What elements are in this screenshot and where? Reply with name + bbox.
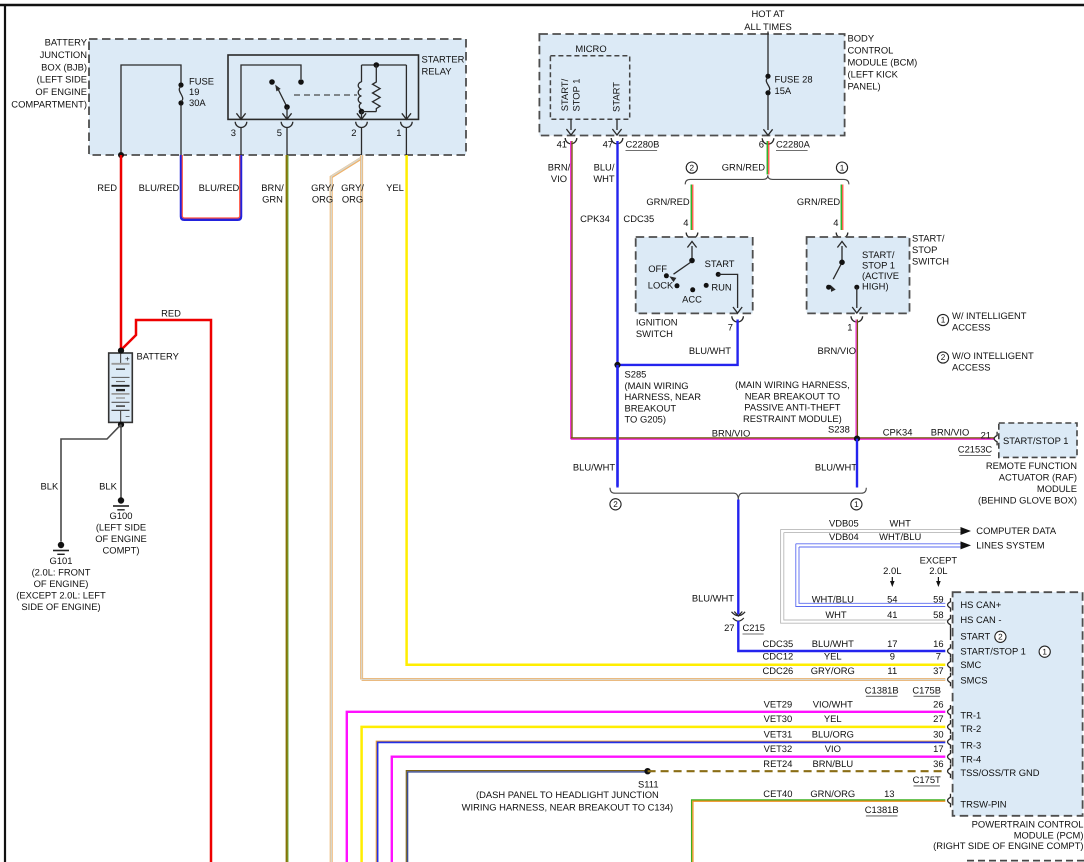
svg-text:BLU/WHT: BLU/WHT [812, 638, 854, 649]
svg-text:41: 41 [887, 609, 897, 620]
svg-text:GRY/ORG: GRY/ORG [811, 665, 855, 676]
micro pin41 arrow [566, 119, 575, 135]
svg-text:STARTER: STARTER [422, 53, 465, 64]
svg-text:2.0L: 2.0L [929, 565, 947, 576]
svg-text:STOP 1: STOP 1 [570, 78, 581, 111]
ground G101 [16, 542, 106, 612]
svg-text:C175T: C175T [913, 774, 941, 785]
svg-text:BLU/RED: BLU/RED [139, 182, 180, 193]
svg-text:COMPUTER DATA: COMPUTER DATA [976, 525, 1057, 536]
pin 4 left [683, 217, 688, 228]
svg-text:5: 5 [277, 127, 282, 138]
svg-text:ACCESS: ACCESS [952, 361, 991, 372]
svg-text:START/: START/ [912, 232, 945, 243]
svg-text:37: 37 [933, 665, 943, 676]
note circ1 [836, 162, 847, 173]
svg-text:16: 16 [933, 638, 943, 649]
relay pin chevrons [236, 113, 411, 119]
pin 7 [728, 321, 733, 332]
label WHT/BLU cd [879, 531, 921, 542]
svg-text:ACC: ACC [682, 293, 702, 304]
svg-text:HOT AT: HOT AT [752, 8, 785, 19]
svg-text:(BEHIND GLOVE BOX): (BEHIND GLOVE BOX) [978, 494, 1077, 505]
label BLU/WHT left [573, 461, 615, 472]
svg-text:BODY: BODY [848, 32, 875, 43]
svg-text:STOP: STOP [912, 244, 937, 255]
svg-text:BRN/: BRN/ [548, 161, 571, 172]
connector C1381B b [865, 804, 899, 816]
svg-text:C2280B: C2280B [626, 138, 660, 149]
svg-text:(LEFT SIDE: (LEFT SIDE [37, 74, 87, 85]
note w/ intelligent access [937, 310, 1026, 333]
note circ1 b [851, 499, 862, 510]
svg-text:TSS/OSS/TR GND: TSS/OSS/TR GND [960, 767, 1039, 778]
svg-text:MODULE (BCM): MODULE (BCM) [848, 56, 918, 67]
svg-text:VET30: VET30 [764, 713, 793, 724]
svg-text:STOP 1: STOP 1 [862, 259, 895, 270]
svg-text:OF ENGINE: OF ENGINE [35, 86, 87, 97]
svg-text:VDB04: VDB04 [829, 531, 859, 542]
svg-text:COMPARTMENT): COMPARTMENT) [11, 98, 87, 109]
svg-text:ORG: ORG [342, 193, 363, 204]
svg-text:−: − [125, 412, 130, 421]
wire BJB feed [121, 65, 181, 155]
svg-text:HARNESS, NEAR: HARNESS, NEAR [625, 391, 702, 402]
svg-text:VET31: VET31 [764, 728, 793, 739]
node battery+ [118, 348, 124, 354]
arrow except [936, 577, 941, 587]
wire fuse28 down [763, 94, 772, 135]
svg-text:CET40: CET40 [763, 788, 792, 799]
svg-text:SMCS: SMCS [960, 674, 987, 685]
svg-text:BRN/VIO: BRN/VIO [817, 345, 856, 356]
starter relay label [422, 53, 465, 76]
micro box [550, 43, 629, 119]
svg-text:(MAIN WIRING HARNESS,: (MAIN WIRING HARNESS, [735, 379, 850, 390]
pin 6 [759, 138, 764, 149]
cup ign pin7 [732, 316, 744, 322]
label VDB04 [829, 531, 859, 542]
svg-text:S285: S285 [625, 368, 647, 379]
cup ign [686, 233, 698, 239]
row RET24 [763, 758, 943, 769]
ign arrow up [687, 242, 696, 261]
wire BRN/VIO ss [856, 320, 857, 439]
svg-text:LINES SYSTEM: LINES SYSTEM [976, 539, 1044, 550]
svg-text:TR-2: TR-2 [960, 723, 981, 734]
svg-text:47: 47 [603, 138, 613, 149]
arrow cd1 [961, 527, 972, 535]
svg-text:C1381B: C1381B [865, 804, 899, 815]
svg-text:VIO/WHT: VIO/WHT [813, 698, 853, 709]
PCM pin TR-4 [948, 750, 982, 765]
svg-text:2: 2 [941, 353, 946, 362]
pin 1 ss [847, 321, 852, 332]
svg-text:17: 17 [933, 743, 943, 754]
wire BLK g101 [41, 425, 121, 542]
svg-text:13: 13 [884, 788, 894, 799]
wire RED battery feed [97, 155, 121, 349]
wire BLU/WHT s285 down [616, 365, 618, 488]
label EXCEPT 2.0L [920, 554, 958, 576]
RAF pin bracket [994, 432, 997, 446]
svg-text:VET32: VET32 [764, 743, 793, 754]
ss pivot [839, 260, 845, 266]
wire RED right [121, 307, 211, 862]
RAF pin label [1003, 435, 1068, 446]
svg-text:S238: S238 [828, 423, 850, 434]
svg-text:CPK34: CPK34 [883, 426, 913, 437]
wire BLU/WHT s238 down [856, 439, 858, 488]
wire BLU/WHT merged [737, 500, 739, 615]
RAF module box [999, 423, 1077, 457]
fuse F19 [178, 75, 214, 107]
svg-text:BLU/RED: BLU/RED [199, 182, 240, 193]
wire VIO/WHT TR-1 [347, 712, 946, 862]
svg-text:(RIGHT SIDE OF ENGINE COMPT): (RIGHT SIDE OF ENGINE COMPT) [933, 840, 1083, 851]
ignition switch label [636, 316, 678, 339]
svg-text:58: 58 [933, 609, 943, 620]
wire BLU/RED loop [139, 155, 241, 220]
PCM pin HS CAN+ [948, 598, 1002, 612]
svg-text:(EXCEPT 2.0L: LEFT: (EXCEPT 2.0L: LEFT [16, 589, 106, 600]
wire BLU/WHT ign [618, 320, 738, 365]
PCM pin TRSW-PIN [948, 794, 1007, 810]
svg-text:LOCK: LOCK [648, 279, 674, 290]
svg-text:1: 1 [396, 127, 401, 138]
wire BLK g100 [99, 425, 121, 498]
svg-text:BATTERY: BATTERY [137, 350, 180, 361]
svg-text:(LEFT KICK: (LEFT KICK [848, 68, 899, 79]
svg-text:START: START [610, 82, 621, 112]
wire GRN/RED left [646, 185, 692, 231]
relay wire pin3 [241, 65, 304, 119]
row CDC12 [763, 650, 941, 661]
svg-text:1: 1 [1042, 647, 1047, 656]
brace split [685, 175, 849, 184]
svg-text:TO G205): TO G205) [625, 414, 667, 425]
PCM pin TR-2 [948, 720, 982, 734]
svg-text:TRSW-PIN: TRSW-PIN [960, 798, 1006, 809]
PCM pin HS CAN- [948, 614, 1002, 640]
svg-text:YEL: YEL [386, 182, 404, 193]
row VET31 [764, 728, 944, 739]
svg-text:2: 2 [351, 127, 356, 138]
svg-text:4: 4 [833, 217, 838, 228]
svg-text:REMOTE FUNCTION: REMOTE FUNCTION [986, 460, 1077, 471]
svg-text:27: 27 [724, 622, 734, 633]
pin numbers [231, 127, 402, 138]
svg-text:26: 26 [933, 698, 943, 709]
svg-text:RELAY: RELAY [422, 65, 453, 76]
pin 41 [557, 138, 567, 149]
label hot at all times [744, 8, 791, 32]
ign arm [669, 262, 691, 282]
svg-text:36: 36 [933, 758, 943, 769]
svg-text:WHT: WHT [593, 173, 615, 184]
relay pin2 stub [361, 112, 363, 120]
svg-text:BLU/ORG: BLU/ORG [812, 728, 854, 739]
ground G100 [95, 497, 147, 555]
wire fuse to pin [180, 105, 182, 156]
wire BLU/WHT pin47 [593, 141, 617, 486]
svg-text:OF ENGINE: OF ENGINE [95, 533, 147, 544]
svg-text:TR-4: TR-4 [960, 753, 981, 764]
svg-text:YEL: YEL [824, 650, 842, 661]
label WHT cd [890, 517, 912, 528]
svg-text:C1381B: C1381B [865, 684, 899, 695]
svg-text:GRN: GRN [262, 193, 283, 204]
svg-text:1: 1 [941, 316, 946, 325]
svg-text:CDC35: CDC35 [623, 213, 654, 224]
svg-text:RED: RED [161, 307, 181, 318]
svg-text:ACCESS: ACCESS [952, 321, 991, 332]
label BLU/WHT right [815, 461, 857, 472]
wire GRN/ORG TRSW [692, 800, 946, 862]
ignition switch box [636, 237, 753, 313]
svg-text:W/O INTELLIGENT: W/O INTELLIGENT [952, 350, 1034, 361]
label BLU/WHT ign [689, 345, 731, 356]
cup ss pin1 [851, 316, 863, 322]
svg-text:2: 2 [690, 163, 695, 172]
svg-text:START/STOP 1: START/STOP 1 [960, 645, 1025, 656]
ss arm [830, 264, 841, 292]
row VET29 [764, 698, 944, 709]
svg-text:RESTRAINT MODULE): RESTRAINT MODULE) [743, 413, 842, 424]
wire BRN/GRN [261, 155, 288, 862]
relay coil [358, 65, 364, 114]
svg-text:MODULE (PCM): MODULE (PCM) [1014, 829, 1084, 840]
svg-text:4: 4 [683, 217, 688, 228]
svg-text:POWERTRAIN CONTROL: POWERTRAIN CONTROL [972, 818, 1084, 829]
powertrain control module (PCM) [953, 592, 1083, 816]
wire GRY/ORG long [311, 155, 361, 862]
svg-text:11: 11 [887, 665, 897, 676]
svg-text:BLK: BLK [99, 480, 117, 491]
svg-text:BLU/WHT: BLU/WHT [815, 461, 857, 472]
svg-text:GRN/ORG: GRN/ORG [810, 788, 855, 799]
wire BRN/BLU solid [406, 771, 647, 862]
svg-text:VIO: VIO [551, 173, 567, 184]
svg-text:BLU/WHT: BLU/WHT [689, 345, 731, 356]
svg-text:YEL: YEL [824, 713, 842, 724]
starter relay box [228, 55, 419, 119]
wire WHT/BLU U [796, 544, 946, 607]
svg-text:W/ INTELLIGENT: W/ INTELLIGENT [952, 310, 1027, 321]
connector C175B [912, 684, 941, 696]
svg-text:FUSE 28: FUSE 28 [775, 73, 813, 84]
svg-text:7: 7 [936, 650, 941, 661]
wire GRN/RED pin6 [722, 141, 769, 175]
svg-text:9: 9 [890, 650, 895, 661]
wire GRN/RED right [797, 185, 843, 231]
splice S111 [462, 768, 674, 812]
wire GRY/ORG pin2 [341, 155, 364, 680]
svg-text:2.0L: 2.0L [883, 565, 901, 576]
svg-text:GRN/RED: GRN/RED [722, 161, 765, 172]
next module box fragment [967, 860, 1084, 862]
svg-text:WHT/BLU: WHT/BLU [812, 593, 854, 604]
note anti-theft [735, 379, 850, 424]
svg-text:HIGH): HIGH) [862, 280, 889, 291]
BCM label [848, 32, 918, 91]
relay switch arm [275, 85, 290, 119]
wire YEL pin1 [386, 182, 404, 193]
svg-text:WHT: WHT [890, 517, 912, 528]
svg-text:C2280A: C2280A [776, 138, 811, 149]
BJB label [11, 36, 87, 109]
svg-text:(MAIN WIRING: (MAIN WIRING [625, 380, 689, 391]
label CPK34 [580, 213, 610, 224]
svg-text:RED: RED [97, 182, 117, 193]
connector C175T [913, 774, 941, 786]
wire BRN/VIO pin41 [548, 141, 572, 439]
label computer data [976, 525, 1057, 550]
page border left [4, 4, 6, 862]
wire VIO TR-4 [392, 757, 946, 862]
splice S238 [854, 436, 860, 442]
micro start label [610, 82, 621, 112]
svg-text:3: 3 [231, 127, 236, 138]
PCM pin START [960, 630, 1006, 642]
PCM pin TR-1 [948, 705, 982, 720]
svg-text:TR-3: TR-3 [960, 739, 981, 750]
row CDC35 [763, 638, 944, 649]
RAF label [978, 460, 1077, 506]
label CDC35 [623, 213, 654, 224]
ss contacts [826, 285, 859, 290]
label BRN/VIO ss [817, 345, 856, 356]
connector C2280A [776, 138, 811, 150]
svg-text:2: 2 [998, 632, 1003, 641]
label BRN/VIO h [931, 426, 970, 437]
relay contact dot [269, 79, 275, 85]
svg-text:G100: G100 [110, 510, 133, 521]
svg-text:START/STOP 1: START/STOP 1 [1003, 435, 1068, 446]
svg-text:BLK: BLK [41, 480, 59, 491]
wire YEL to SMC [407, 155, 946, 665]
svg-text:BOX (BJB): BOX (BJB) [41, 61, 87, 72]
svg-text:VDB05: VDB05 [829, 517, 859, 528]
svg-text:COMPT): COMPT) [103, 544, 140, 555]
svg-text:7: 7 [728, 321, 733, 332]
body control module (BCM) [539, 34, 844, 136]
svg-text:ACTUATOR (RAF): ACTUATOR (RAF) [999, 471, 1077, 482]
svg-text:CONTROL: CONTROL [848, 44, 894, 55]
svg-text:START: START [705, 258, 735, 269]
micro pin47 arrow [612, 119, 621, 135]
svg-text:BLU/WHT: BLU/WHT [692, 592, 734, 603]
connector C2280B [626, 138, 660, 150]
wire BLU/WHT to PCM [738, 621, 945, 651]
svg-text:START/: START/ [862, 249, 895, 260]
row CDC26 [763, 665, 944, 676]
splice S285 [614, 362, 701, 425]
pin 4 right [833, 217, 838, 228]
connector C1381B [865, 684, 899, 696]
ss wire down [852, 287, 861, 313]
svg-text:WHT/BLU: WHT/BLU [879, 531, 921, 542]
connector C2153C [958, 443, 993, 455]
svg-text:(LEFT SIDE: (LEFT SIDE [96, 521, 146, 532]
arrow cd2 [961, 541, 972, 549]
svg-text:ORG: ORG [312, 193, 333, 204]
note circ2 b [610, 499, 621, 510]
svg-text:BRN/VIO: BRN/VIO [931, 426, 970, 437]
svg-text:ALL TIMES: ALL TIMES [744, 21, 791, 32]
svg-text:(DASH PANEL TO HEADLIGHT JUNCT: (DASH PANEL TO HEADLIGHT JUNCTION [476, 789, 659, 800]
svg-text:BREAKOUT: BREAKOUT [625, 402, 677, 413]
svg-text:FUSE: FUSE [189, 75, 214, 86]
cup ss [836, 233, 848, 239]
node bjb-red [118, 152, 124, 158]
svg-text:SMC: SMC [960, 659, 981, 670]
svg-text:GRY/: GRY/ [311, 182, 334, 193]
svg-text:GRN/RED: GRN/RED [646, 196, 689, 207]
svg-text:GRY/: GRY/ [341, 182, 364, 193]
svg-text:15A: 15A [775, 85, 792, 96]
wire hot feed [767, 32, 769, 75]
svg-text:S111: S111 [638, 778, 659, 789]
svg-text:WHT: WHT [825, 609, 847, 620]
svg-text:VET29: VET29 [764, 698, 793, 709]
svg-text:CDC35: CDC35 [763, 638, 794, 649]
svg-text:59: 59 [933, 593, 943, 604]
battery junction box (BJB) [89, 39, 466, 155]
svg-text:+: + [125, 355, 130, 364]
note circ2 [686, 162, 697, 173]
svg-text:(ACTIVE: (ACTIVE [862, 270, 899, 281]
ss labels [862, 249, 899, 292]
wire BRN/BLU dashed [648, 770, 946, 772]
svg-text:CDC26: CDC26 [763, 665, 794, 676]
ss arrow up [837, 242, 846, 263]
svg-text:CPK34: CPK34 [580, 213, 610, 224]
PCM pin START/STOP 1 [948, 644, 1051, 658]
svg-text:1: 1 [840, 163, 845, 172]
PCM pin TR-3 [948, 735, 982, 750]
svg-text:WIRING HARNESS, NEAR BREAKOUT: WIRING HARNESS, NEAR BREAKOUT TO C134) [462, 801, 674, 812]
label 2.0L [883, 565, 901, 576]
row VET32 [764, 743, 944, 754]
label S238 [828, 423, 850, 434]
node battery- [118, 422, 124, 428]
svg-text:BRN/BLU: BRN/BLU [812, 758, 853, 769]
svg-text:30: 30 [933, 728, 943, 739]
start/stop switch box [807, 237, 910, 313]
svg-text:SWITCH: SWITCH [912, 255, 949, 266]
fuse F28 [765, 73, 812, 96]
svg-text:27: 27 [933, 713, 943, 724]
PCM pin TSS/OSS/TR GND [948, 764, 1040, 778]
svg-text:BLU/: BLU/ [594, 161, 615, 172]
svg-text:IGNITION: IGNITION [636, 316, 678, 327]
PCM pin SMC [948, 658, 982, 672]
label WHT 41 58 [825, 609, 943, 620]
svg-text:SWITCH: SWITCH [636, 328, 673, 339]
svg-text:1: 1 [847, 321, 852, 332]
relay resistor [362, 62, 407, 111]
arrow 2.0L [890, 577, 895, 587]
svg-text:RET24: RET24 [763, 758, 792, 769]
svg-text:C2153C: C2153C [958, 443, 993, 454]
svg-text:MICRO: MICRO [575, 43, 606, 54]
row CET40 [763, 788, 894, 799]
ign labels [648, 258, 735, 305]
pin stubs to BJB edge [241, 128, 406, 156]
wire YEL TR-2 [362, 727, 946, 862]
svg-text:1: 1 [854, 500, 859, 509]
